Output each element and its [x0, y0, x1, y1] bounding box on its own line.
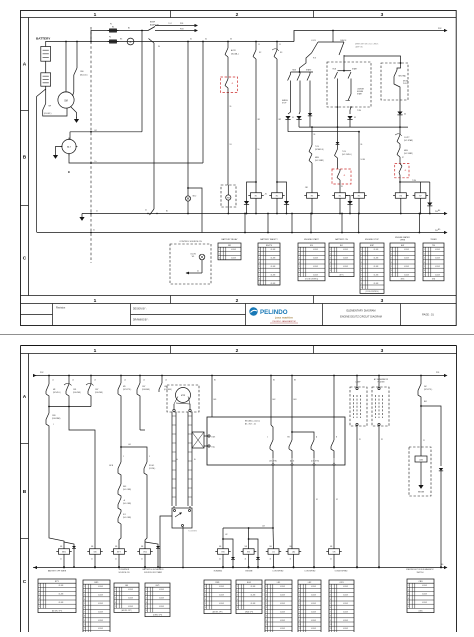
svg-text:41: 41 [96, 211, 98, 213]
wire SM to ground [71, 107, 77, 118]
svg-text:4: 4 [39, 598, 40, 600]
svg-text:B3: B3 [294, 380, 296, 382]
svg-text:01-308: 01-308 [435, 266, 440, 268]
ECU pins [204, 435, 207, 437]
svg-text:7: 7 [84, 611, 85, 613]
svg-text:7: 7 [266, 611, 267, 613]
ECU internal switch 4 [333, 376, 335, 441]
svg-text:S1-WL: S1-WL [149, 465, 154, 467]
svg-text:01-308: 01-308 [343, 620, 348, 622]
svg-text:10: 10 [330, 624, 332, 626]
switch MF [43, 104, 46, 111]
page2 top bus [33, 375, 447, 377]
svg-text:41: 41 [290, 559, 292, 561]
svg-text:10: 10 [84, 624, 86, 626]
svg-text:(Y.CON CONTROL): (Y.CON CONTROL) [365, 291, 379, 293]
svg-text:01-308: 01-308 [435, 274, 440, 276]
loom rail ends [173, 506, 175, 508]
CBS dashed box [409, 447, 431, 496]
svg-text:1: 1 [391, 249, 392, 251]
collector rail B y131.7 [288, 131, 359, 133]
svg-text:1: 1 [146, 589, 147, 591]
svg-text:(WHEN KEY SW LOCK, CHECK: (WHEN KEY SW LOCK, CHECK [355, 44, 379, 46]
switch LS5 [161, 375, 163, 383]
svg-text:ADAPTOR: ADAPTOR [150, 23, 159, 26]
svg-text:Y.CON·BTM: Y.CON·BTM [188, 531, 197, 533]
svg-text:01-308: 01-308 [59, 585, 64, 587]
svg-text:01-308: 01-308 [422, 602, 427, 604]
wire MS branch [121, 447, 147, 462]
svg-text:01-308: 01-308 [128, 598, 133, 600]
relay coil C2 [335, 193, 346, 199]
svg-text:11: 11 [84, 628, 86, 630]
svg-text:CB1: CB1 [73, 389, 76, 391]
switch CB0 [76, 41, 78, 68]
svg-text:MB: MB [219, 546, 221, 548]
svg-text:4: 4 [259, 262, 260, 264]
diode drop 4 [397, 112, 402, 115]
diode drop start [308, 113, 312, 116]
page 1 sheet edge [0, 334, 474, 336]
svg-text:L03: L03 [262, 526, 265, 528]
svg-text:P.SW: P.SW [168, 23, 172, 25]
svg-text:2: 2 [259, 253, 260, 255]
svg-text:B02: B02 [273, 399, 276, 401]
ECU bottom pins [272, 463, 275, 465]
svg-text:01-308: 01-308 [271, 274, 276, 276]
svg-text:L5: L5 [143, 380, 145, 382]
svg-text:5: 5 [330, 266, 331, 268]
svg-text:41: 41 [245, 559, 247, 561]
svg-text:5: 5 [330, 603, 331, 605]
switch TOS mid [335, 149, 338, 156]
svg-text:01-308: 01-308 [313, 266, 318, 268]
svg-text:3: 3 [408, 594, 409, 596]
svg-text:B4: B4 [438, 210, 440, 212]
svg-text:1: 1 [299, 249, 300, 251]
ECU internal switch 3 [292, 432, 314, 440]
red box limit switch 3 [395, 164, 409, 178]
svg-text:BO: BO [340, 245, 343, 247]
svg-text:LAMP: LAMP [356, 381, 362, 384]
svg-text:1: 1 [330, 249, 331, 251]
svg-text:1: 1 [94, 12, 97, 18]
battery B2 [41, 73, 51, 86]
switch chain stack [120, 478, 122, 484]
junction dot stray [68, 171, 70, 173]
svg-text:5: 5 [424, 266, 425, 268]
svg-text:L02: L02 [225, 534, 228, 536]
svg-text:LICENSE: LICENSE [357, 89, 364, 91]
switch chain TOS [311, 127, 313, 145]
page 1 border frame [21, 11, 457, 326]
svg-text:10: 10 [266, 624, 268, 626]
svg-text:01-308: 01-308 [311, 595, 316, 597]
svg-text:5: 5 [39, 602, 40, 604]
wire CB7b down [139, 400, 141, 430]
key switch right drop [344, 55, 401, 63]
svg-text:3: 3 [266, 595, 267, 597]
svg-text:4: 4 [205, 599, 206, 601]
svg-text:LS5: LS5 [164, 386, 167, 388]
svg-text:(SS-STAR): (SS-STAR) [52, 417, 61, 420]
svg-text:85: 85 [341, 186, 343, 188]
svg-text:01-308: 01-308 [422, 585, 427, 587]
svg-text:MB: MB [141, 546, 143, 548]
svg-text:01-308: 01-308 [271, 283, 276, 285]
svg-text:01-308: 01-308 [271, 258, 276, 260]
svg-text:S.OM: S.OM [361, 159, 366, 161]
svg-text:PAGE : 01: PAGE : 01 [422, 314, 434, 317]
svg-text:ENGINE: ENGINE [246, 571, 254, 573]
ammeter A [127, 38, 134, 45]
wire connector left [160, 516, 172, 567]
svg-text:01-308: 01-308 [280, 595, 285, 597]
svg-text:7: 7 [330, 611, 331, 613]
svg-text:01-308: 01-308 [98, 586, 103, 588]
svg-text:B1: B1 [166, 211, 168, 213]
svg-text:01-308: 01-308 [404, 249, 409, 251]
svg-text:01-308: 01-308 [435, 249, 440, 251]
svg-text:SOURCE ON: SOURCE ON [119, 572, 131, 574]
svg-text:S2: S2 [259, 52, 261, 54]
svg-text:8: 8 [266, 616, 267, 618]
svg-text:01-308: 01-308 [219, 595, 224, 597]
svg-text:T.OM: T.OM [357, 110, 361, 112]
loom connector small box [192, 432, 204, 448]
svg-text:2: 2 [236, 298, 239, 304]
svg-text:01-308: 01-308 [343, 603, 348, 605]
svg-text:1: 1 [115, 589, 116, 591]
coil row page2 [59, 549, 70, 555]
svg-text:6: 6 [391, 270, 392, 272]
svg-text:MB: MB [245, 546, 247, 548]
svg-text:C: C [23, 579, 27, 585]
relay coil C4 [395, 193, 406, 199]
svg-text:TIMER: TIMER [430, 239, 437, 241]
svg-text:SWITCH: SWITCH [417, 572, 424, 574]
svg-text:ESP: ESP [370, 245, 375, 247]
svg-text:2: 2 [205, 590, 206, 592]
page2 tables [38, 579, 76, 613]
svg-text:LOCK: LOCK [311, 40, 317, 42]
svg-text:1: 1 [205, 586, 206, 588]
red box limit switch 2 [332, 169, 351, 184]
svg-text:X2: X2 [205, 39, 207, 41]
svg-text:9: 9 [259, 283, 260, 285]
svg-text:B2: B2 [273, 380, 275, 382]
svg-text:P02: P02 [438, 28, 441, 30]
svg-text:(LTD.SYN): (LTD.SYN) [311, 461, 319, 463]
svg-text:01-308: 01-308 [280, 586, 285, 588]
svg-text:01-308: 01-308 [311, 620, 316, 622]
svg-text:(TM): (TM) [432, 279, 436, 281]
svg-text:01-308: 01-308 [311, 586, 316, 588]
svg-text:(HOSE: (HOSE [403, 81, 408, 83]
svg-text:M+: M+ [176, 459, 178, 461]
svg-text:2: 2 [84, 590, 85, 592]
svg-text:6: 6 [237, 607, 238, 609]
svg-text:4: 4 [299, 599, 300, 601]
diodes coil row left [64, 542, 74, 546]
svg-text:(LS-DMS): (LS-DMS) [164, 389, 172, 391]
svg-text:4: 4 [424, 262, 425, 264]
svg-text:LS2: LS2 [292, 552, 295, 554]
svg-text:4: 4 [115, 602, 116, 604]
svg-text:6: 6 [146, 610, 147, 612]
svg-text:DRAWING BY :: DRAWING BY : [133, 319, 149, 322]
svg-text:1: 1 [219, 249, 220, 251]
svg-text:W1: W1 [258, 119, 261, 121]
svg-text:01-308: 01-308 [374, 258, 379, 260]
svg-text:2: 2 [361, 253, 362, 255]
svg-text:15: 15 [258, 44, 260, 46]
svg-text:2: 2 [39, 589, 40, 591]
svg-text:5: 5 [299, 603, 300, 605]
svg-text:ELEMENTARY DIAGRAM: ELEMENTARY DIAGRAM [346, 310, 375, 313]
svg-text:-K1: -K1 [265, 194, 268, 196]
group bottom rail [49, 406, 91, 408]
svg-text:WL: WL [192, 256, 195, 258]
svg-text:B1: B1 [128, 28, 130, 30]
svg-text:(81-082.): (81-082.) [44, 113, 52, 115]
svg-text:(S/C.CMS.L): (S/C.CMS.L) [342, 154, 352, 156]
red box limit switch 1 [221, 77, 238, 93]
svg-text:41: 41 [219, 559, 221, 561]
svg-text:(SY.WL): (SY.WL) [149, 468, 156, 470]
svg-text:(SP-STYL): (SP-STYL) [123, 389, 132, 391]
svg-text:7: 7 [391, 274, 392, 276]
wire chain2 down [69, 407, 95, 549]
svg-text:(S/L.OMS): (S/L.OMS) [123, 517, 131, 519]
svg-text:4: 4 [361, 262, 362, 264]
svg-text:01-308: 01-308 [422, 594, 427, 596]
svg-text:P01: P01 [180, 23, 183, 25]
svg-text:41: 41 [405, 170, 407, 172]
svg-text:41: 41 [91, 559, 93, 561]
alternator ALT [62, 139, 76, 153]
svg-text:3: 3 [84, 595, 85, 597]
svg-text:R5: R5 [358, 196, 360, 198]
svg-text:3: 3 [424, 258, 425, 260]
switch chain K1 [255, 41, 257, 50]
loom bottom connector box [172, 508, 192, 528]
svg-text:5: 5 [237, 603, 238, 605]
fuse F2 [110, 40, 117, 43]
bus main y41 [46, 41, 294, 43]
svg-text:B (P): B (P) [212, 436, 216, 438]
diode drop license [350, 107, 351, 114]
pelindo logo [249, 307, 298, 323]
svg-text:BATTERY RELAY: BATTERY RELAY [222, 238, 239, 241]
svg-text:(S/L.STAR): (S/L.STAR) [315, 159, 324, 162]
switch CBS low [46, 413, 49, 420]
wire lamp riser [187, 42, 189, 196]
lamp WL2 [185, 196, 190, 201]
svg-text:BS/YS: BS/YS [266, 245, 273, 247]
svg-text:EW: EW [401, 245, 404, 247]
svg-text:4: 4 [391, 262, 392, 264]
svg-text:8: 8 [330, 616, 331, 618]
svg-text:(Y.CON CONTROL): (Y.CON CONTROL) [305, 279, 319, 281]
svg-text:01-308: 01-308 [280, 611, 285, 613]
svg-text:(S/C.STAR): (S/C.STAR) [404, 139, 413, 142]
svg-text:B: B [23, 489, 27, 495]
svg-text:01-308: 01-308 [343, 628, 348, 630]
svg-text:(1.REN. OPT): (1.REN. OPT) [153, 614, 163, 616]
svg-text:4: 4 [330, 262, 331, 264]
svg-text:2: 2 [391, 253, 392, 255]
diode chain mid [337, 107, 339, 142]
svg-text:86: 86 [314, 134, 316, 136]
svg-text:5: 5 [146, 606, 147, 608]
svg-text:3: 3 [39, 594, 40, 596]
svg-text:41: 41 [145, 210, 147, 212]
svg-text:41: 41 [232, 83, 234, 85]
svg-text:P02: P02 [40, 372, 43, 374]
svg-text:(SP-STYL): (SP-STYL) [424, 389, 433, 391]
svg-text:R1: R1 [112, 27, 114, 29]
svg-text:1: 1 [361, 249, 362, 251]
svg-text:41: 41 [270, 559, 272, 561]
svg-text:R3: R3 [120, 39, 122, 41]
license inner switch [348, 94, 351, 101]
switch chain K2 [276, 41, 278, 50]
svg-text:C1: C1 [423, 440, 425, 442]
svg-text:STOP: STOP [282, 103, 286, 105]
svg-text:01-308: 01-308 [251, 586, 256, 588]
svg-text:5: 5 [266, 603, 267, 605]
svg-text:5: 5 [299, 266, 300, 268]
svg-text:(SS-DMS): (SS-DMS) [142, 389, 150, 391]
svg-text:L6: L6 [165, 380, 167, 382]
wire left chain down [49, 430, 64, 549]
svg-text:3: 3 [299, 595, 300, 597]
motor dashed box [167, 385, 199, 412]
svg-text:10: 10 [361, 287, 363, 289]
switch FM right [420, 375, 422, 384]
collector rail A y127 [299, 126, 408, 128]
ground in CBS box [420, 483, 422, 485]
svg-text:D2: D2 [354, 117, 356, 119]
svg-text:15: 15 [279, 44, 281, 46]
svg-text:ALT: ALT [67, 146, 72, 149]
svg-text:01-308: 01-308 [404, 258, 409, 260]
svg-text:L1: L1 [52, 380, 54, 382]
svg-text:6: 6 [330, 270, 331, 272]
svg-text:2: 2 [266, 590, 267, 592]
svg-text:(SP-WLL): (SP-WLL) [53, 392, 61, 394]
svg-text:AC GENERATOR: AC GENERATOR [374, 378, 389, 381]
svg-text:3: 3 [259, 258, 260, 260]
svg-text:1: 1 [39, 585, 40, 587]
svg-text:7: 7 [424, 274, 425, 276]
svg-text:MF: MF [53, 389, 55, 391]
svg-text:MB: MB [330, 546, 332, 548]
svg-text:01-308: 01-308 [313, 249, 318, 251]
svg-text:6: 6 [361, 270, 362, 272]
ground ALT [56, 147, 63, 154]
svg-text:B2: B2 [95, 130, 97, 132]
svg-text:01-308: 01-308 [311, 611, 316, 613]
svg-text:CB0: CB0 [80, 71, 84, 73]
hour meter box [221, 185, 236, 207]
svg-text:8: 8 [361, 279, 362, 281]
svg-text:3: 3 [237, 595, 238, 597]
svg-text:01-308: 01-308 [231, 258, 236, 260]
svg-text:CB7: CB7 [95, 389, 98, 391]
svg-text:OPEN: OPEN [400, 239, 406, 241]
svg-text:BATTERY & GOVERNOR: BATTERY & GOVERNOR [143, 568, 164, 571]
svg-text:1: 1 [424, 249, 425, 251]
svg-text:W2: W2 [279, 119, 282, 121]
switch X4 to ground bus [150, 209, 155, 215]
svg-text:RUNNING: RUNNING [214, 571, 223, 573]
wire D+ riser [202, 41, 204, 163]
svg-text:01-308: 01-308 [343, 249, 348, 251]
svg-text:S1: S1 [230, 144, 232, 146]
svg-text:86: 86 [361, 144, 363, 146]
svg-text:BTY: BTY [55, 581, 60, 583]
svg-text:01-308: 01-308 [59, 594, 64, 596]
svg-text:41: 41 [330, 559, 332, 561]
relay K2 loop [277, 182, 287, 199]
svg-text:F2: F2 [109, 37, 111, 39]
switch MCB [120, 447, 122, 462]
svg-text:L01: L01 [128, 444, 131, 446]
switch group MF CB1 CB7 [48, 376, 50, 385]
svg-text:ENGINE DEUTZ CIRCUIT DIAGRAM: ENGINE DEUTZ CIRCUIT DIAGRAM [340, 316, 382, 319]
ECU internal switch 2 [291, 417, 293, 432]
svg-text:01-308: 01-308 [271, 249, 276, 251]
wire lamp loop to lower bus [188, 188, 202, 233]
switch AUTO chain [227, 41, 229, 48]
svg-text:01-308: 01-308 [343, 611, 348, 613]
svg-text:CS-ON: CS-ON [190, 254, 196, 256]
svg-text:4: 4 [146, 602, 147, 604]
svg-text:01-308: 01-308 [219, 586, 224, 588]
svg-text:6: 6 [330, 607, 331, 609]
svg-text:01-308: 01-308 [128, 606, 133, 608]
svg-text:01-308: 01-308 [59, 602, 64, 604]
svg-text:01-308: 01-308 [280, 620, 285, 622]
svg-text:3: 3 [146, 598, 147, 600]
bus rise to upper level [294, 31, 447, 42]
svg-text:B1: B1 [214, 380, 216, 382]
svg-text:41: 41 [115, 559, 117, 561]
svg-text:4: 4 [237, 599, 238, 601]
switch CLUTY [397, 135, 400, 142]
svg-text:3: 3 [361, 258, 362, 260]
svg-text:jasa maritim: jasa maritim [274, 316, 293, 320]
svg-text:ENGINE: ENGINE [357, 91, 363, 93]
svg-text:(80-100.): (80-100.) [80, 75, 88, 77]
svg-text:Revision: Revision [56, 307, 66, 310]
svg-text:01-308: 01-308 [313, 274, 318, 276]
svg-text:1: 1 [330, 586, 331, 588]
svg-text:3: 3 [381, 12, 384, 18]
svg-text:LOW SPEED: LOW SPEED [305, 571, 316, 573]
svg-text:8: 8 [259, 279, 260, 281]
svg-text:10: 10 [299, 624, 301, 626]
svg-text:CBS: CBS [418, 581, 423, 583]
svg-text:(S/L.OMS): (S/L.OMS) [123, 503, 131, 505]
svg-text:R3: R3 [311, 196, 313, 198]
svg-text:2: 2 [299, 253, 300, 255]
svg-text:(BTY): (BTY) [340, 274, 344, 276]
diode drop run [299, 112, 300, 114]
svg-text:START: START [306, 69, 311, 72]
